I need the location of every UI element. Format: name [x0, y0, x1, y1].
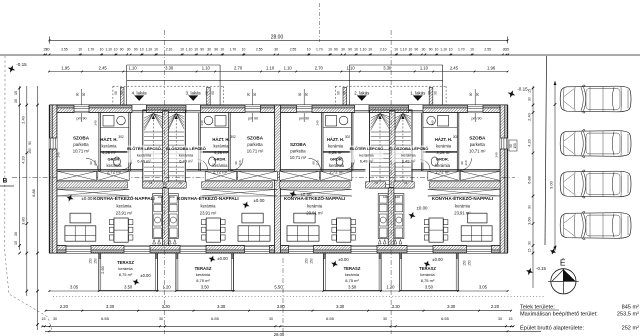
svg-text:90: 90	[429, 47, 433, 51]
svg-text:2.55: 2.55	[256, 47, 263, 51]
svg-text:8,75 m²: 8,75 m²	[345, 278, 359, 283]
porch side walls	[343, 88, 347, 106]
building outer walls hatched	[49, 105, 507, 108]
second dimension row (room axes)	[49, 71, 507, 73]
svg-text:90: 90	[120, 91, 124, 95]
level marker -0.15 top right	[506, 89, 516, 99]
svg-text:SZOBA: SZOBA	[73, 136, 90, 141]
svg-text:90: 90	[298, 93, 302, 97]
svg-text:10: 10	[328, 47, 332, 51]
svg-text:1.70: 1.70	[88, 47, 95, 51]
stair core box	[370, 110, 413, 188]
svg-text:kerámia: kerámia	[359, 153, 374, 158]
svg-text:kerámia: kerámia	[455, 203, 471, 208]
built-in wardrobes with X symbols	[57, 171, 97, 180]
svg-text:2. lakás: 2. lakás	[354, 91, 370, 96]
unit4 fixtures	[103, 116, 114, 127]
wc	[336, 157, 343, 166]
svg-text:90: 90	[247, 93, 251, 97]
svg-text:6,49 m²: 6,49 m²	[402, 159, 416, 164]
svg-text:100: 100	[383, 195, 388, 199]
svg-text:15: 15	[14, 241, 18, 245]
svg-text:6.55: 6.55	[211, 316, 220, 321]
svg-text:±0.00: ±0.00	[82, 196, 94, 201]
stair spine wall	[389, 111, 395, 188]
svg-text:240: 240	[316, 120, 320, 125]
svg-text:3.30: 3.30	[162, 304, 171, 309]
svg-text:1.10: 1.10	[129, 65, 138, 70]
svg-text:302: 302	[453, 135, 459, 139]
svg-text:8,75 m²: 8,75 m²	[196, 278, 210, 283]
svg-text:15: 15	[42, 317, 46, 321]
balustrade flat-X strip	[57, 188, 129, 190]
central party wall units 3/2	[275, 105, 281, 253]
unit1 corridor wall	[420, 113, 422, 172]
svg-text:kerámia: kerámia	[117, 203, 133, 208]
unit4 room divider	[100, 151, 128, 153]
svg-text:SZOBA: SZOBA	[247, 136, 264, 141]
svg-text:150: 150	[463, 260, 467, 266]
svg-text:2.45: 2.45	[99, 65, 108, 70]
door arc unit3 szoba	[231, 158, 243, 170]
dotted line below terraces	[53, 296, 545, 298]
svg-text:23,91 m²: 23,91 m²	[306, 210, 323, 215]
svg-text:2,72 m²: 2,72 m²	[329, 170, 344, 175]
unit3 horizontal wall	[186, 169, 274, 171]
svg-text:6.55: 6.55	[101, 316, 110, 321]
svg-text:kerámia: kerámia	[107, 163, 123, 168]
kitchen counter	[394, 194, 404, 239]
roof overhang dashed outline	[113, 85, 224, 87]
svg-text:90: 90	[343, 91, 347, 95]
svg-text:10: 10	[114, 47, 118, 51]
svg-text:1.70: 1.70	[458, 47, 465, 51]
unit4 szoba wall	[98, 113, 100, 172]
svg-text:90: 90	[214, 47, 218, 51]
svg-text:30: 30	[341, 47, 345, 51]
svg-text:30: 30	[14, 232, 18, 236]
svg-text:8,75 m²: 8,75 m²	[421, 278, 435, 283]
svg-text:3.05: 3.05	[70, 284, 79, 289]
svg-text:3.30: 3.30	[106, 304, 115, 309]
svg-text:TERASZ: TERASZ	[344, 266, 361, 271]
svg-text:10: 10	[409, 47, 413, 51]
svg-text:2.45: 2.45	[450, 65, 459, 70]
parking dim line	[554, 81, 556, 251]
svg-text:kerámia: kerámia	[420, 272, 435, 277]
svg-text:kerámia: kerámia	[328, 144, 344, 149]
svg-text:240: 240	[431, 120, 435, 125]
svg-text:4,25 m²: 4,25 m²	[328, 150, 343, 155]
svg-text:3.30: 3.30	[165, 65, 174, 70]
svg-text:6.55: 6.55	[441, 316, 450, 321]
svg-text:10,71 m²: 10,71 m²	[290, 155, 307, 160]
svg-text:210: 210	[93, 160, 97, 165]
svg-text:240: 240	[94, 120, 98, 125]
terrace walls	[399, 253, 401, 291]
svg-text:1.20: 1.20	[386, 284, 395, 289]
property boundary north (full width line)	[0, 54, 640, 56]
svg-text:23,91 m²: 23,91 m²	[116, 210, 133, 215]
unit2 szoba wall	[321, 113, 323, 172]
terrace wall stubs	[176, 253, 178, 259]
stair spine wall	[163, 111, 169, 188]
terrace walls	[175, 253, 177, 291]
door swing marks below kitchen	[378, 240, 381, 245]
svg-text:90: 90	[337, 91, 341, 95]
svg-text:75: 75	[127, 147, 131, 151]
svg-text:90: 90	[205, 91, 209, 95]
svg-text:3.50: 3.50	[425, 284, 434, 289]
unit3 corridor wall	[198, 113, 200, 172]
svg-text:kerámia: kerámia	[196, 272, 211, 277]
svg-text:8,75 m²: 8,75 m²	[119, 272, 133, 277]
window axis	[303, 89, 305, 122]
svg-text:HÁZT. H.: HÁZT. H.	[435, 137, 452, 142]
svg-text:75: 75	[404, 181, 408, 185]
svg-text:90: 90	[476, 93, 480, 97]
svg-text:kerámia: kerámia	[435, 163, 451, 168]
svg-text:TERASZ: TERASZ	[195, 266, 212, 271]
terrace bottom edge	[99, 290, 158, 292]
gallery edge hatched strip	[57, 182, 128, 188]
svg-text:1.20: 1.20	[163, 284, 172, 289]
svg-text:ELŐTÉR LÉPCSŐ: ELŐTÉR LÉPCSŐ	[127, 146, 161, 151]
svg-text:30: 30	[53, 317, 57, 321]
svg-text:kerámia: kerámia	[436, 144, 452, 149]
left dim line 2	[26, 86, 28, 296]
svg-text:210: 210	[316, 160, 320, 165]
svg-text:210: 210	[238, 160, 242, 165]
svg-text:90: 90	[82, 93, 86, 97]
stair flights	[371, 114, 380, 119]
section line B-B	[12, 176, 515, 178]
svg-text:KONYHA-ÉTKEZŐ-NAPPALI: KONYHA-ÉTKEZŐ-NAPPALI	[93, 194, 154, 201]
window right wall	[500, 138, 508, 149]
svg-text:10: 10	[307, 47, 311, 51]
svg-text:3.30: 3.30	[383, 65, 392, 70]
svg-text:30: 30	[528, 241, 532, 245]
svg-text:parketta: parketta	[470, 142, 486, 147]
terrace bottom edge	[176, 290, 234, 292]
svg-text:30: 30	[274, 47, 278, 51]
bottom dim row 1 (terraces)	[49, 290, 507, 292]
window axis	[474, 89, 476, 122]
wc	[431, 157, 438, 166]
svg-text:1.10: 1.10	[266, 65, 275, 70]
terrace wall stubs	[99, 253, 101, 259]
svg-text:2.40: 2.40	[528, 113, 532, 120]
svg-text:10: 10	[78, 47, 82, 51]
upper floor edge line	[127, 79, 443, 81]
svg-text:pm 90: pm 90	[299, 117, 309, 121]
sofa	[461, 226, 492, 241]
svg-text:10,71 m²: 10,71 m²	[247, 149, 264, 154]
svg-text:Épület bruttó alapterülete:: Épület bruttó alapterülete:	[520, 324, 585, 331]
svg-text:HÁZT. H.: HÁZT. H.	[212, 137, 229, 142]
svg-text:210: 210	[464, 160, 468, 165]
svg-text:1.96: 1.96	[487, 65, 496, 70]
unit4 corridor wall	[128, 113, 130, 172]
svg-text:15: 15	[509, 317, 513, 321]
svg-text:90: 90	[334, 47, 338, 51]
svg-text:2.20: 2.20	[491, 304, 500, 309]
svg-text:150: 150	[305, 258, 309, 264]
svg-text:-0.15: -0.15	[16, 62, 27, 67]
svg-text:pm 90: pm 90	[77, 117, 87, 121]
svg-text:28.00: 28.00	[274, 332, 285, 336]
svg-text:10: 10	[140, 47, 144, 51]
entrance canopy outline	[126, 65, 128, 105]
kitchen counter	[153, 194, 163, 239]
svg-text:3.80: 3.80	[277, 304, 286, 309]
unit1 szoba wall	[456, 113, 458, 172]
svg-text:2,72 m²: 2,72 m²	[435, 170, 450, 175]
unit2 room divider	[323, 151, 351, 153]
wc	[209, 157, 216, 166]
svg-text:-0.15: -0.15	[536, 266, 547, 271]
svg-text:Maximálisan beépíthető terület: Maximálisan beépíthető terület:	[520, 312, 598, 318]
svg-text:75: 75	[350, 147, 354, 151]
door arc unit2 szoba	[309, 158, 321, 170]
svg-text:4,25 m²: 4,25 m²	[436, 150, 451, 155]
svg-text:±0.00: ±0.00	[217, 256, 228, 261]
svg-text:10: 10	[242, 47, 246, 51]
svg-text:±0.00: ±0.00	[417, 206, 429, 211]
svg-text:-0.15: -0.15	[517, 87, 528, 92]
right dim line	[532, 86, 534, 288]
svg-text:6,49 m²: 6,49 m²	[360, 159, 374, 164]
svg-text:6.55: 6.55	[326, 316, 335, 321]
dining table	[429, 218, 443, 242]
svg-text:10: 10	[435, 47, 439, 51]
svg-text:GRDR.: GRDR.	[214, 157, 227, 162]
svg-text:3. lakás: 3. lakás	[186, 91, 202, 96]
chairs	[332, 220, 336, 225]
unit3 fixtures	[215, 116, 226, 127]
svg-text:KONYHA-ÉTKEZŐ-NAPPALI: KONYHA-ÉTKEZŐ-NAPPALI	[432, 194, 493, 201]
unit1 room divider	[423, 151, 457, 153]
svg-text:GRDR.: GRDR.	[330, 157, 343, 162]
svg-text:30: 30	[383, 317, 387, 321]
door arc unit1 szoba	[460, 158, 472, 170]
unit2 corridor wall	[350, 113, 352, 172]
svg-text:90: 90	[348, 47, 352, 51]
svg-text:100: 100	[395, 195, 400, 199]
door arc unit4 szoba	[86, 158, 98, 170]
svg-text:100: 100	[157, 195, 162, 199]
svg-text:90: 90	[305, 93, 309, 97]
svg-text:10: 10	[394, 47, 398, 51]
unit axis lines	[164, 30, 166, 334]
compass north arrow	[548, 258, 579, 295]
svg-text:3.30: 3.30	[392, 304, 401, 309]
svg-text:pm 90: pm 90	[248, 117, 258, 121]
svg-text:30: 30	[528, 97, 532, 101]
svg-text:90: 90	[120, 47, 124, 51]
bottom dim row 2	[46, 310, 511, 312]
svg-text:1.10: 1.10	[146, 47, 153, 51]
unit3 room divider	[200, 151, 228, 153]
left dim line 3	[37, 86, 39, 330]
svg-text:150: 150	[468, 260, 472, 266]
svg-text:150: 150	[513, 143, 517, 149]
svg-text:1.10: 1.10	[284, 65, 293, 70]
svg-text:SZOBA: SZOBA	[290, 142, 307, 147]
sofa	[287, 226, 319, 241]
svg-text:±0.00: ±0.00	[338, 257, 349, 262]
svg-text:6,49 m²: 6,49 m²	[137, 159, 151, 164]
svg-text:10: 10	[220, 47, 224, 51]
terrace walls	[322, 253, 324, 291]
svg-text:15: 15	[528, 89, 532, 93]
svg-text:252 m²: 252 m²	[622, 325, 640, 331]
coffee table	[242, 213, 263, 223]
svg-text:3.30: 3.30	[336, 304, 345, 309]
svg-text:23,91 m²: 23,91 m²	[200, 210, 217, 215]
terrace sliding doors bottom wall	[124, 246, 150, 254]
door swing marks below kitchen	[394, 240, 397, 245]
right plot boundary	[545, 56, 547, 245]
svg-text:2.60: 2.60	[101, 266, 105, 273]
svg-text:1.70: 1.70	[316, 47, 323, 51]
coffee table	[294, 213, 315, 223]
svg-text:90: 90	[75, 93, 79, 97]
unit4 horizontal wall	[57, 169, 143, 171]
wc	[114, 157, 121, 166]
svg-text:30: 30	[528, 205, 532, 209]
car 3	[560, 170, 631, 198]
unit3 szoba wall	[228, 113, 230, 172]
svg-text:253,5 m²: 253,5 m²	[617, 312, 639, 318]
kitchen spine wall A	[163, 188, 169, 246]
top dimension line 28.00	[49, 39, 507, 41]
svg-text:1.10: 1.10	[347, 65, 356, 70]
left dim line 1	[19, 86, 21, 250]
svg-text:23,91 m²: 23,91 m²	[454, 210, 471, 215]
svg-text:TERASZ: TERASZ	[419, 266, 436, 271]
svg-text:1.70: 1.70	[230, 47, 237, 51]
svg-text:kerámia: kerámia	[401, 153, 416, 158]
door swing marks below kitchen	[168, 240, 171, 245]
svg-text:2.70: 2.70	[234, 65, 243, 70]
stair labels	[127, 146, 161, 163]
svg-text:KONYHA-ÉTKEZŐ-NAPPALI: KONYHA-ÉTKEZŐ-NAPPALI	[177, 194, 238, 201]
svg-text:100: 100	[169, 195, 174, 199]
svg-text:10: 10	[100, 47, 104, 51]
sofa	[65, 226, 96, 241]
svg-text:30: 30	[159, 317, 163, 321]
porch side walls	[120, 88, 124, 106]
svg-text:1. lakás: 1. lakás	[410, 91, 426, 96]
svg-text:30: 30	[269, 317, 273, 321]
svg-text:2.40: 2.40	[21, 116, 25, 123]
svg-text:10: 10	[449, 47, 453, 51]
svg-text:4.20: 4.20	[21, 156, 25, 163]
svg-text:3.30: 3.30	[217, 304, 226, 309]
svg-text:kerámia: kerámia	[179, 153, 194, 158]
unit2 horizontal wall	[280, 169, 366, 171]
bottom dim row 3	[42, 325, 513, 327]
chairs	[424, 220, 428, 225]
svg-text:2.55: 2.55	[61, 47, 68, 51]
svg-text:28.00: 28.00	[271, 34, 284, 40]
terrace walls	[98, 253, 100, 291]
svg-text:6.88: 6.88	[528, 176, 532, 183]
unit1 horizontal wall	[411, 169, 500, 171]
svg-text:240: 240	[200, 120, 204, 125]
site data text	[520, 304, 639, 331]
svg-text:302: 302	[345, 135, 351, 139]
svg-text:Telek területe:: Telek területe:	[520, 304, 555, 310]
svg-text:kerámia: kerámia	[307, 203, 323, 208]
dining table	[337, 218, 351, 242]
svg-text:HÁZT. H.: HÁZT. H.	[327, 137, 344, 142]
door swing marks below kitchen	[153, 240, 156, 245]
svg-text:parketta: parketta	[247, 142, 263, 147]
dining table	[114, 218, 128, 242]
chairs	[109, 220, 113, 225]
svg-text:30: 30	[46, 47, 50, 51]
svg-text:9.00: 9.00	[550, 181, 554, 188]
svg-text:kerámia: kerámia	[213, 163, 229, 168]
svg-text:845 m²: 845 m²	[622, 304, 640, 310]
stair core box	[143, 110, 186, 188]
svg-text:kerámia: kerámia	[102, 144, 118, 149]
sofa	[238, 226, 270, 241]
svg-text:15: 15	[505, 47, 509, 51]
svg-text:3.30: 3.30	[447, 304, 456, 309]
kitchen counter	[168, 194, 178, 239]
bottom property line with 28.00	[45, 330, 541, 332]
svg-text:75: 75	[421, 147, 425, 151]
svg-text:3.50: 3.50	[124, 284, 133, 289]
svg-text:GRDR.: GRDR.	[108, 157, 121, 162]
svg-text:±0.00: ±0.00	[254, 198, 266, 203]
svg-text:10: 10	[368, 47, 372, 51]
svg-text:10,71 m²: 10,71 m²	[73, 149, 90, 154]
svg-text:90: 90	[434, 91, 438, 95]
svg-text:2.20: 2.20	[60, 304, 69, 309]
svg-text:2.10: 2.10	[380, 47, 387, 51]
svg-text:30: 30	[207, 47, 211, 51]
svg-text:90: 90	[469, 93, 473, 97]
svg-text:150: 150	[89, 258, 93, 264]
svg-text:75: 75	[149, 181, 153, 185]
svg-text:2.10: 2.10	[166, 47, 173, 51]
svg-text:6,49 m²: 6,49 m²	[179, 159, 193, 164]
svg-text:10: 10	[354, 47, 358, 51]
svg-text:90: 90	[28, 141, 32, 145]
svg-text:1.10: 1.10	[400, 47, 407, 51]
svg-text:90: 90	[211, 91, 215, 95]
svg-text:2,72 m²: 2,72 m²	[213, 170, 228, 175]
svg-text:kerámia: kerámia	[214, 144, 230, 149]
unit1 fixtures	[438, 116, 449, 127]
svg-text:±0.00: ±0.00	[140, 273, 151, 278]
svg-text:3.05: 3.05	[479, 284, 488, 289]
svg-text:75: 75	[178, 181, 182, 185]
entrance canopy outline	[348, 65, 350, 105]
svg-text:10: 10	[194, 47, 198, 51]
svg-text:75: 75	[374, 181, 378, 185]
svg-text:HÁZT. H.: HÁZT. H.	[100, 137, 117, 142]
level marker -0.15 bottom right	[525, 267, 535, 277]
svg-text:GRDR.: GRDR.	[436, 157, 449, 162]
svg-text:4.20: 4.20	[528, 139, 532, 146]
svg-text:parketta: parketta	[290, 149, 306, 154]
svg-text:3.80: 3.80	[21, 217, 25, 224]
